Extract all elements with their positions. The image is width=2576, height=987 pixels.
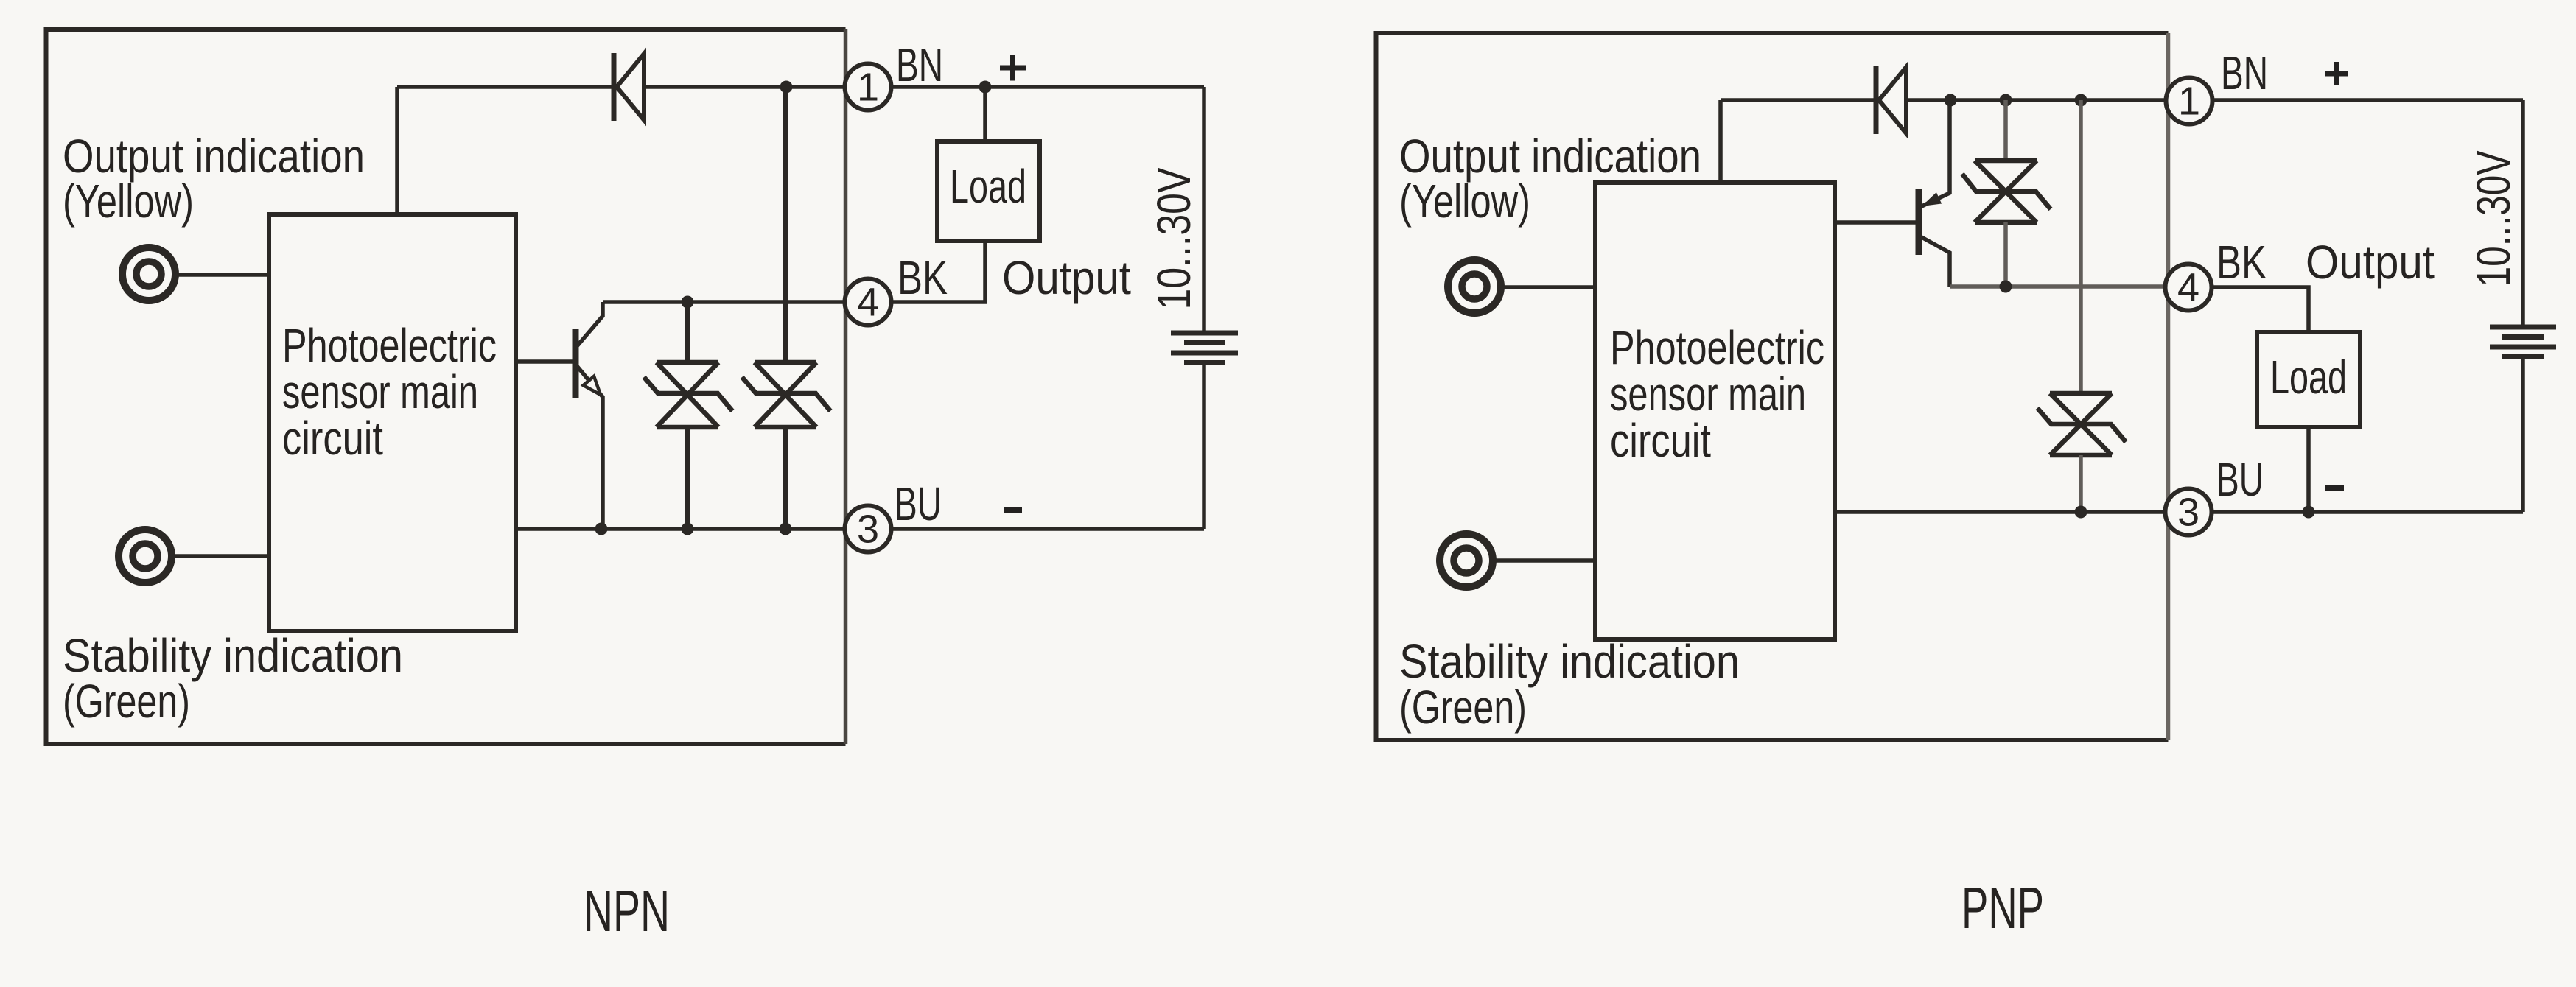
wire load to BU rail (PNP) [2306,427,2311,512]
label: Stability indication (Green) (PNP) [1399,635,1740,734]
wire BU rail to battery (NPN) [892,527,1205,531]
svg-text:Photoelectric: Photoelectric [1610,321,1824,374]
junction: Z1 to BU rail (NPN) [682,523,694,535]
svg-text:NPN: NPN [584,878,670,944]
main circuit block U1 (NPN) [269,214,516,631]
svg-text:1: 1 [2178,80,2200,124]
diode D2 reverse-polarity protection (PNP) [1876,66,1906,134]
svg-text:Load: Load [2270,351,2347,404]
terminal pin 4 BK (NPN) [845,279,892,326]
minus sign (PNP) [2325,485,2344,491]
wire BN rail to battery (PNP) [2213,98,2524,102]
wire load to BK output (NPN) [892,241,986,302]
svg-text:3: 3 [857,507,879,552]
sensor enclosure box (PNP) [1376,33,2169,740]
plus sign (NPN) [1000,55,1026,81]
wire BU rail to battery (PNP) [2212,510,2524,514]
wire base of Q2 from main circuit (PNP) [1835,220,1919,225]
junction: load to BU rail (PNP) [2303,506,2315,519]
TVS suppressor Z1 across output (NPN) [644,302,732,529]
svg-text:BU: BU [895,477,942,530]
svg-text:circuit: circuit [282,412,383,465]
TVS suppressor Z2 across supply (NPN) [742,87,830,529]
wire green LED to main circuit (NPN) [173,554,269,558]
terminal pin 4 BK (PNP) [2166,264,2212,311]
svg-text:4: 4 [857,281,879,325]
label: Output indication (Yellow) (PNP) [1399,130,1701,228]
svg-text:BU: BU [2216,453,2264,506]
wire BN rail to battery (NPN) [892,85,1205,89]
battery 10...30V supply (PNP) [2490,100,2556,512]
junction: Z3 to BK rail (PNP) [2000,281,2012,293]
junction: Z2 to BU rail (NPN) [780,523,792,535]
svg-text:BK: BK [897,251,948,304]
load resistor box (PNP) [2257,332,2360,427]
svg-text:BK: BK [2216,236,2267,289]
LED stability indicator (green, NPN) [119,530,172,583]
svg-text:BN: BN [896,38,943,91]
junction: BN rail to emitter of Q2 (PNP) [1945,94,1957,107]
wire BU rail (PNP) [1835,510,2166,514]
svg-text:(Yellow): (Yellow) [63,175,194,228]
plus sign (PNP) [2325,62,2348,85]
terminal pin 1 BN (PNP) [2166,78,2213,124]
svg-text:Load: Load [950,160,1026,213]
wire load branch down (NPN) [983,87,987,141]
load resistor box (NPN) [937,141,1040,241]
wire green LED to main circuit (PNP) [1494,558,1595,563]
terminal pin 1 BN (NPN) [845,64,892,110]
transistor Q2 PNP output [1919,100,1950,287]
LED output indicator (yellow, NPN) [122,247,175,301]
svg-text:BN: BN [2221,46,2268,99]
wire yellow LED to main circuit (NPN) [177,273,269,277]
label: Output indication (Yellow) (NPN) [63,130,365,228]
battery 10...30V supply (NPN) [1171,87,1238,529]
terminal pin 3 BU (NPN) [845,506,892,552]
junction: BN rail to load branch (NPN) [979,81,992,94]
svg-text:4: 4 [2177,266,2199,310]
svg-text:circuit: circuit [1610,414,1711,467]
sensor enclosure box (NPN) [46,29,846,744]
wire base of Q1 from main circuit (NPN) [516,359,575,364]
wire BK rail from collector (PNP) [1950,284,2166,289]
junction: BN rail to TVS Z3 (PNP) [2000,94,2012,107]
junction: BN rail to TVS Z4 (PNP) [2075,94,2087,107]
svg-text:10...30V: 10...30V [2467,150,2520,287]
svg-text:Output: Output [1002,251,1131,304]
svg-text:Photoelectric: Photoelectric [282,319,497,372]
label: Photoelectric sensor main circuit (PNP) [1610,321,1824,467]
wire BK rail (NPN) [603,300,845,304]
svg-text:Output: Output [2306,236,2435,289]
transistor Q1 NPN output [575,302,603,529]
wire yellow LED to main circuit (PNP) [1502,285,1595,289]
TVS suppressor Z4 across supply (PNP) [2037,100,2126,512]
LED output indicator (yellow, PNP) [1448,260,1501,313]
junction: Z4 to BU rail (PNP) [2075,506,2087,519]
svg-text:1: 1 [857,66,879,110]
LED stability indicator (green, PNP) [1440,534,1493,587]
svg-text:(Green): (Green) [1399,681,1527,734]
wire riser main circuit to BN rail (NPN) [395,87,399,214]
label: Photoelectric sensor main circuit (NPN) [282,319,497,465]
junction: emitter of Q1 to BU rail (NPN) [595,523,608,535]
terminal pin 3 BU (PNP) [2166,489,2212,535]
svg-text:(Yellow): (Yellow) [1399,175,1530,228]
svg-text:sensor main: sensor main [282,365,478,418]
main circuit block U2 (PNP) [1595,183,1835,639]
label: Stability indication (Green) (NPN) [63,629,403,728]
wire BN rail (NPN) [397,85,845,89]
junction: BK rail to TVS Z1 (NPN) [682,296,694,309]
diode D1 reverse-polarity protection (NPN) [614,53,644,121]
svg-text:(Green): (Green) [63,675,190,728]
svg-text:sensor main: sensor main [1610,368,1806,421]
TVS suppressor Z3 across B-E (PNP) [1962,100,2051,287]
wire BU rail (NPN) [516,527,845,531]
wire riser main circuit to BN rail (PNP) [1718,100,1723,183]
svg-text:3: 3 [2177,491,2199,535]
svg-text:PNP: PNP [1961,875,2044,941]
wire BK output to load (PNP) [2212,287,2309,332]
wire BN rail (PNP) [1721,98,2166,102]
svg-text:10...30V: 10...30V [1147,167,1200,309]
junction: BN rail to TVS Z2 (NPN) [780,81,793,94]
minus sign (NPN) [1004,507,1022,513]
